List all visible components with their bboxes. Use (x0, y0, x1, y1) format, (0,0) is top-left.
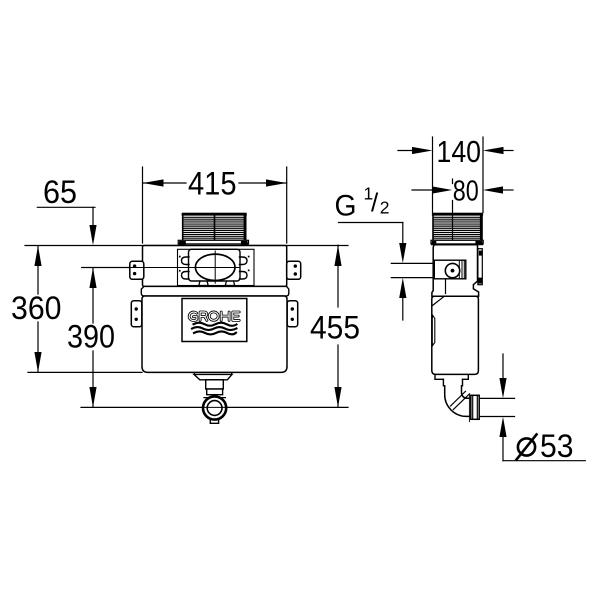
bracket foot left (199, 281, 208, 286)
svg-text:390: 390 (67, 319, 115, 355)
dia53 down arrow (499, 378, 506, 398)
dim 360 up arrow (34, 246, 41, 266)
dia53 up arrow (499, 417, 506, 437)
G 1/2 up arrow (399, 278, 406, 298)
cistern upper section (143, 246, 287, 287)
lower tab left (131, 301, 142, 327)
main tank (142, 296, 287, 372)
svg-text:415: 415 (188, 166, 237, 202)
dia53 upper vertical line (502, 354, 504, 380)
dim 140 extension line left (432, 137, 434, 213)
side valve bracket (434, 260, 466, 279)
oval crosshair horizontal (82, 267, 240, 269)
upper tab right (287, 261, 301, 279)
dim 455 down arrow (334, 387, 341, 407)
elbow flange (471, 395, 479, 419)
upper tab left (130, 261, 144, 279)
pipe top line (479, 397, 514, 399)
inlet stub top line (391, 262, 433, 264)
dim 140 left arrow (412, 147, 433, 154)
dim 415 line right segment (239, 182, 287, 184)
dim 455 up arrow (334, 245, 341, 266)
dim 455 vertical line lower (337, 345, 339, 407)
ribbed box front flange (178, 240, 248, 244)
dia53 symbol circle (518, 438, 535, 455)
dim 65 vertical line (92, 207, 94, 230)
dia53 leader bottom line (503, 460, 585, 462)
side valve circle (445, 263, 459, 277)
dim 140 left shaft (398, 150, 414, 152)
bracket foot right (225, 281, 234, 286)
flange center mark (468, 394, 470, 421)
lower tab left holes (135, 307, 138, 310)
dia53 symbol slash (517, 435, 537, 460)
outlet bottom tab (210, 419, 218, 423)
recess rectangle (178, 249, 255, 285)
rail black block top (479, 251, 482, 256)
outlet pipe upper (206, 380, 224, 389)
G 1/2 lower vertical line (402, 296, 404, 320)
side body chamfer line (432, 297, 443, 306)
corner dot left bottom (179, 270, 181, 272)
dim 65 leader line (37, 206, 95, 208)
dim 65 down arrow (89, 225, 96, 245)
svg-text:65: 65 (43, 174, 77, 210)
svg-text:53: 53 (540, 428, 574, 464)
dim 415 arrow left (143, 179, 164, 186)
outlet pipe lower (207, 389, 223, 395)
upper tab left holes (133, 264, 136, 267)
bottom tank reference line y=372.4 (28, 371, 142, 373)
elbow joint line 2 (453, 394, 469, 410)
corner dot right top (248, 256, 250, 258)
bracket hook left top (182, 257, 190, 265)
outlet center line segment (203, 406, 227, 408)
dim 360 down arrow (34, 352, 41, 372)
flange black wedge left (178, 241, 186, 245)
corner dot left top (179, 256, 181, 258)
svg-text:140: 140 (437, 134, 482, 169)
outlet inner circle (207, 401, 222, 416)
valve bracket frame (189, 249, 241, 281)
dim 455 vertical line upper (337, 245, 339, 307)
GROHE access panel (182, 299, 247, 342)
svg-text:455: 455 (310, 310, 360, 346)
side flush pipe sliver (432, 315, 435, 345)
elbow inner wall (462, 386, 471, 399)
flange black wedge right (241, 241, 249, 245)
funnel step 2 (443, 379, 462, 386)
svg-text:G: G (335, 190, 357, 223)
valve center reference line y=267.5 (82, 267, 240, 269)
bracket hook left bottom (182, 272, 190, 280)
dim 80 right arrow (483, 186, 503, 193)
dim 140 right arrow (483, 147, 504, 154)
ribbed box side flange (431, 240, 483, 244)
bracket hook right top (240, 257, 248, 265)
G 1/2 leader horizontal (339, 222, 403, 224)
dim 390 vertical line upper (92, 268, 94, 323)
G 1/2 leader vertical to arrow (402, 223, 404, 246)
side valve center dot (451, 269, 455, 273)
G 1/2 down arrow (399, 243, 406, 263)
svg-text:2: 2 (380, 198, 390, 218)
dim 390 down arrow (89, 387, 96, 407)
dim 415 extension line left (142, 167, 144, 243)
rail black block bottom (479, 278, 483, 284)
elbow joint line 1 (451, 391, 466, 406)
svg-text:80: 80 (453, 176, 479, 208)
outlet collar line (204, 397, 225, 399)
outlet trapezoid connector (194, 374, 232, 379)
dim 140 right shaft (503, 150, 513, 152)
GROHE logo letters (189, 312, 239, 321)
dim 80 left arrow (432, 186, 452, 193)
dim 415 extension line right (286, 167, 288, 243)
dim 80 left shaft (412, 189, 434, 191)
dia53 lower vertical line (502, 436, 504, 461)
G 1/2 text (335, 184, 390, 223)
oval crosshair vertical (214, 251, 216, 283)
side upper body outline (432, 245, 479, 296)
ribbed box side (433, 214, 482, 241)
funnel step 1 (435, 375, 468, 380)
valve center line vertical (452, 179, 454, 184)
dim 390 up arrow (below valve centerline) (89, 268, 96, 288)
side lower body (432, 296, 479, 374)
inlet stub bottom line (391, 277, 433, 279)
side valve inner lines (459, 260, 464, 279)
GROHE waves (192, 323, 237, 335)
side mounting rail strip (478, 249, 482, 285)
svg-text:/: / (371, 188, 379, 218)
elbow outer wall (445, 386, 471, 417)
pipe bottom line (479, 416, 514, 418)
dim 360 vertical line lower (37, 322, 39, 372)
side flange black wedge right (475, 241, 483, 245)
bracket hook right bottom (240, 272, 248, 280)
outlet center reference line y=407.4 (81, 406, 348, 408)
dim 140 extension line right (482, 137, 484, 213)
side flange black wedge left (431, 241, 436, 245)
dim 390 vertical line lower (92, 351, 94, 407)
dim 415 line left segment (143, 182, 186, 184)
ribbed box front (183, 214, 246, 241)
upper tab right holes (294, 264, 297, 267)
dim 80 right shaft (502, 189, 513, 191)
svg-text:360: 360 (11, 290, 62, 326)
lower tab right holes (291, 307, 294, 310)
lower tab right (287, 301, 298, 327)
dim 360 vertical line upper (37, 246, 39, 294)
elbow flange inner lines (473, 395, 478, 419)
valve oval (195, 254, 235, 280)
top reference line y=245.5 (25, 245, 348, 247)
outlet outer ring (203, 396, 226, 419)
collar band (141, 286, 288, 296)
dim 415 arrow right (266, 179, 287, 186)
corner dot right bottom (248, 270, 250, 272)
side inner line below bracket (445, 279, 447, 294)
